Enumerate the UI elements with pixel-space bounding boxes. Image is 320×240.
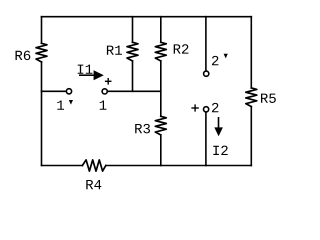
wire port1 horizontal	[105, 90, 161, 92]
label R3	[135, 124, 150, 134]
resistor R2	[155, 42, 166, 61]
label R4	[86, 180, 101, 189]
wire branch R1 lower	[132, 61, 134, 91]
label R2	[174, 44, 189, 53]
node 1' terminal	[66, 89, 71, 94]
current arrow I2	[214, 117, 223, 136]
label R5	[261, 94, 276, 103]
wire top	[42, 16, 252, 18]
wire branch R2 upper	[160, 17, 162, 43]
wire stub 1prime	[42, 90, 67, 92]
wire branch 2prime upper	[205, 17, 207, 71]
wire branch 2 lower	[205, 113, 207, 166]
wire bottom left	[42, 165, 83, 167]
plus sign port2	[191, 104, 198, 111]
wire left lower	[41, 62, 43, 166]
resistor R6	[36, 43, 47, 62]
plus sign port1	[105, 78, 112, 85]
label 1	[100, 100, 107, 109]
node 1 terminal	[102, 89, 107, 94]
label 2	[212, 103, 218, 112]
node 2' terminal	[204, 71, 209, 76]
label 1prime quote	[69, 100, 73, 105]
label R1	[107, 46, 122, 55]
label 1prime	[57, 100, 64, 109]
wire branch R2-R3 middle	[160, 61, 162, 116]
wire bottom right	[106, 165, 252, 167]
resistor R5	[246, 88, 257, 107]
resistor R1	[127, 42, 138, 61]
node 2 terminal	[204, 107, 209, 112]
wire left upper	[41, 17, 43, 44]
current arrow I1	[79, 70, 104, 80]
label 2prime	[212, 56, 218, 65]
label R6	[16, 51, 31, 61]
wire branch R3 lower	[160, 135, 162, 166]
label I1	[78, 65, 93, 74]
wire right upper	[250, 17, 252, 88]
wire branch R1 upper	[132, 17, 134, 43]
label 2prime quote	[224, 54, 228, 59]
resistor R3	[155, 116, 166, 135]
wire right lower	[250, 107, 252, 166]
resistor R4	[82, 160, 105, 171]
label I2	[213, 146, 227, 155]
